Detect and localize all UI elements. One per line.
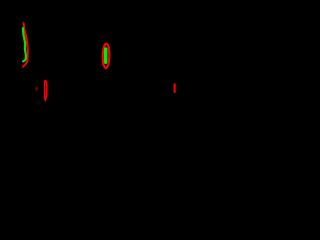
green mark inside ellipse xyxy=(104,49,108,62)
red loop L1 (narrow hairpin scribble with tail) xyxy=(45,81,47,101)
red ellipse O1 (narrow hand-drawn oval, middle) xyxy=(103,44,110,69)
green stroke 1 (left vertical stroke beside red, bottom-left hook) xyxy=(23,28,26,61)
red stroke 1 (left vertical stroke with bottom-left hook) xyxy=(23,23,28,67)
red dot D1 (small blurry dash) xyxy=(36,87,38,89)
canvas background xyxy=(0,0,218,164)
red bar B1 (right side vertical dash) xyxy=(174,84,176,92)
